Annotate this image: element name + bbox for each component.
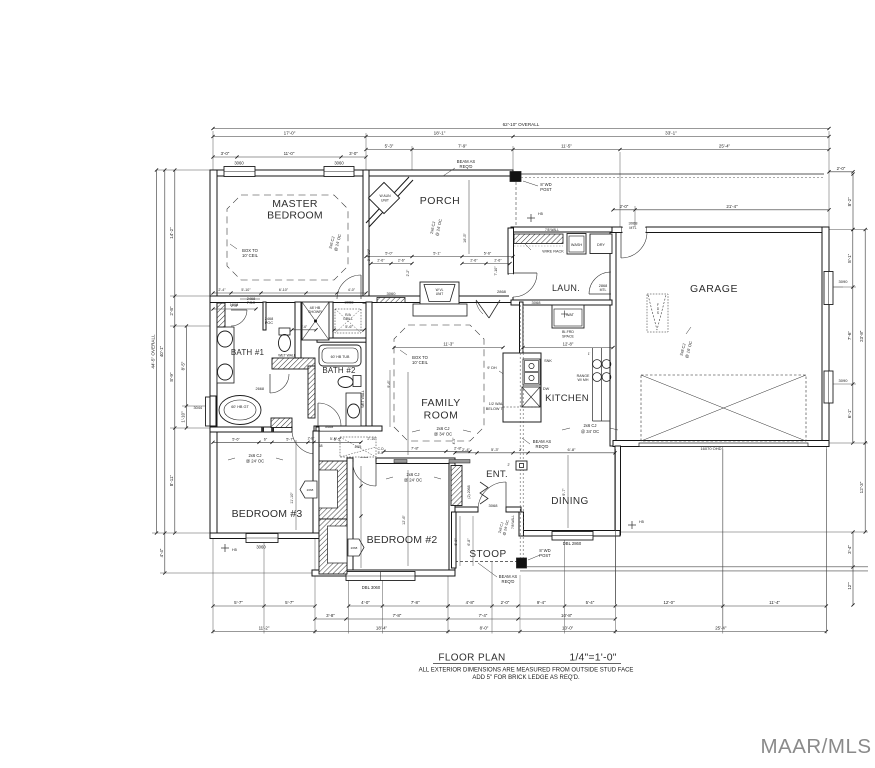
- walkway line front 2: [520, 570, 868, 572]
- svg-text:BATH #2: BATH #2: [322, 366, 356, 375]
- dim right top 8-2: [852, 174, 854, 230]
- svg-text:ENT.: ENT.: [486, 469, 508, 480]
- post at porch top right: [510, 172, 521, 182]
- svg-text:3'-8": 3'-8": [326, 613, 335, 618]
- svg-text:3'-0": 3'-0": [221, 151, 230, 156]
- dim master bottom row: [213, 292, 366, 294]
- wall laundry left upper: [508, 228, 514, 274]
- wall toilet/shower divider bath1: [295, 302, 301, 358]
- svg-text:3060: 3060: [334, 161, 344, 166]
- door 3068 mtl garage top: [620, 232, 622, 258]
- svg-text:3068: 3068: [345, 300, 355, 305]
- svg-text:2x6 CJ: 2x6 CJ: [583, 423, 596, 428]
- svg-text:5'-5": 5'-5": [334, 438, 342, 442]
- svg-text:5'-3": 5'-3": [491, 447, 500, 452]
- kitchen range counter: [592, 348, 594, 421]
- svg-text:ALL EXTERIOR DIMENSIONS ARE ME: ALL EXTERIOR DIMENSIONS ARE MEASURED FRO…: [419, 668, 634, 674]
- svg-text:3044: 3044: [194, 406, 202, 410]
- svg-text:6'-10": 6'-10": [279, 288, 289, 292]
- wall bedroom2 left: [347, 458, 353, 576]
- ext left y296: [170, 295, 211, 297]
- porch bottom interior dims: [366, 256, 513, 258]
- svg-text:7'-4": 7'-4": [479, 613, 488, 618]
- svg-text:WIRE RACK: WIRE RACK: [542, 250, 564, 254]
- dim top right 2-0: [829, 171, 853, 173]
- svg-text:2'-0": 2'-0": [620, 204, 629, 209]
- wall top master+porch: [211, 170, 513, 176]
- ext line family room left: [407, 372, 409, 455]
- closet bedroom3 hatched: [319, 461, 347, 519]
- post stoop black: [517, 558, 527, 568]
- svg-text:11'-0": 11'-0": [284, 151, 295, 156]
- stoop left wall: [452, 512, 457, 568]
- svg-text:11'-5": 11'-5": [561, 144, 572, 149]
- dim bottom row1 right: [448, 605, 826, 607]
- svg-text:2'-8": 2'-8": [308, 436, 316, 440]
- svg-text:23'-8": 23'-8": [859, 330, 864, 342]
- svg-text:GARAGE: GARAGE: [690, 283, 738, 295]
- door 3468 hall to bath2: [317, 403, 319, 426]
- stoop/dining divider wall: [519, 512, 524, 536]
- door 2668 bath1: [269, 374, 271, 393]
- svg-text:5'-6": 5'-6": [345, 325, 353, 329]
- svg-text:4'-8": 4'-8": [466, 600, 475, 605]
- wall corridor left / shower right: [328, 302, 333, 339]
- svg-text:3'-0": 3'-0": [349, 151, 358, 156]
- svg-text:BATH #1: BATH #1: [231, 348, 265, 357]
- door 3068 laundry left: [513, 272, 537, 274]
- svg-text:8'-5": 8'-5": [180, 361, 185, 370]
- attic access dashed: [340, 437, 376, 457]
- svg-text:2'-6": 2'-6": [470, 259, 478, 263]
- svg-text:11'-10": 11'-10": [290, 492, 294, 504]
- svg-text:@ 34' OC: @ 34' OC: [581, 429, 599, 434]
- porch diagonal outer: [366, 177, 409, 223]
- svg-text:KITCHEN: KITCHEN: [545, 393, 589, 404]
- svg-text:2': 2': [519, 447, 522, 452]
- svg-text:7'-6": 7'-6": [847, 331, 852, 341]
- svg-text:6'-8": 6'-8": [568, 447, 577, 452]
- svg-text:7'-10": 7'-10": [494, 266, 498, 276]
- door 1668 bath1 closet: [231, 309, 247, 311]
- dining top dim row: [455, 452, 615, 454]
- svg-text:9' DH: 9' DH: [487, 366, 497, 370]
- svg-text:DRY: DRY: [597, 243, 605, 247]
- bath1 garden tub: [219, 396, 261, 425]
- svg-text:4'-4": 4'-4": [159, 548, 164, 557]
- svg-text:12'-3": 12'-3": [859, 481, 864, 493]
- porch right dotted wall line: [515, 182, 517, 227]
- svg-text:2x6 CJ: 2x6 CJ: [436, 426, 449, 431]
- wall bedroom3 top left: [210, 427, 292, 432]
- dim garage top: [613, 209, 829, 211]
- window 3060 master left: [224, 167, 255, 177]
- svg-text:7'-8": 7'-8": [411, 446, 420, 451]
- ext left y428: [170, 427, 211, 429]
- front double door zigzag (2)2068: [480, 482, 488, 504]
- driveway lines: [615, 449, 617, 604]
- svg-text:UNIT: UNIT: [436, 292, 443, 296]
- svg-text:PORCH: PORCH: [420, 195, 460, 207]
- wall stub laundry-garage top: [610, 227, 622, 233]
- stoop dashed front: [455, 561, 520, 563]
- svg-text:44'-5" OVERALL: 44'-5" OVERALL: [151, 334, 156, 369]
- bath1 toilet: [279, 328, 290, 335]
- svg-text:1': 1': [588, 352, 591, 356]
- wall kitchen left stub: [520, 302, 524, 362]
- bath2 sink cabinet: [346, 393, 361, 426]
- ext line garage right top: [828, 131, 830, 227]
- H5 hose bib porch: [527, 217, 535, 219]
- wall bedroom3 top right stub: [316, 427, 319, 432]
- bath2 toilet: [353, 376, 361, 387]
- svg-text:5'-7": 5'-7": [234, 600, 243, 605]
- svg-text:17'-0": 17'-0": [284, 131, 296, 136]
- dim shower small: [292, 329, 316, 331]
- dim under RA grill: [334, 329, 364, 331]
- dim right bottom segs: [852, 532, 854, 605]
- ext right y287: [833, 286, 856, 288]
- svg-text:POST: POST: [539, 553, 551, 558]
- dim right garage segs: [852, 230, 854, 444]
- svg-text:3090: 3090: [839, 279, 849, 284]
- ext right y443: [829, 442, 868, 444]
- window 3090 garage right lower: [824, 371, 833, 403]
- svg-text:DINING: DINING: [551, 496, 588, 507]
- gap laundry-garage door: [611, 272, 616, 294]
- gap bedroom3 closet door: [314, 478, 319, 498]
- ext right y229: [829, 229, 868, 231]
- svg-text:2068: 2068: [351, 546, 358, 550]
- wall bedroom3 right: [313, 431, 319, 535]
- svg-text:H5: H5: [538, 212, 543, 216]
- svg-text:11'-3": 11'-3": [443, 342, 454, 347]
- svg-text:2x6 CJ: 2x6 CJ: [406, 472, 419, 477]
- svg-text:WASH: WASH: [571, 243, 583, 247]
- garage door header X box: [641, 375, 806, 441]
- svg-text:H5: H5: [639, 520, 644, 524]
- svg-text:3090: 3090: [839, 378, 849, 383]
- R/A grill dashed box: [335, 309, 361, 333]
- svg-text:#05: #05: [355, 444, 362, 449]
- dim master windows: [213, 156, 366, 158]
- gap bedroom2 closet door: [342, 540, 347, 556]
- walkway line front 1: [527, 566, 868, 568]
- svg-text:2x6 CJ: 2x6 CJ: [248, 453, 261, 458]
- fireplace hearth: [413, 304, 467, 316]
- door 2068 closet bedroom3 pentagon: [300, 481, 317, 498]
- svg-text:7/8 WALL: 7/8 WALL: [511, 515, 515, 529]
- svg-text:MTL: MTL: [600, 288, 607, 292]
- dim row2 top: [213, 136, 829, 138]
- svg-text:BEDROOM #2: BEDROOM #2: [367, 534, 438, 546]
- door 2068 bedroom3 entry: [315, 430, 317, 454]
- ext line garage door top: [619, 152, 621, 227]
- svg-text:7/8 WALL: 7/8 WALL: [545, 228, 559, 232]
- wall ent front left: [455, 507, 478, 512]
- svg-text:60' HB GT: 60' HB GT: [231, 405, 249, 409]
- svg-text:12'-8": 12'-8": [563, 342, 574, 347]
- svg-text:21'-4": 21'-4": [726, 204, 738, 209]
- dim overall height left: [156, 170, 158, 533]
- svg-text:POC: POC: [265, 321, 273, 325]
- ext left y406: [182, 405, 207, 407]
- window dbl2860 dining bottom: [552, 532, 593, 541]
- svg-text:(2) 2068: (2) 2068: [467, 485, 471, 498]
- beam dotted line kitchen-dining: [519, 305, 521, 558]
- gap pocket door master-bath: [240, 297, 260, 302]
- window 3060 bedroom3 bottom: [246, 534, 278, 543]
- svg-text:ADD 5" FOR BRICK LEDGE AS REQ': ADD 5" FOR BRICK LEDGE AS REQ'D.: [472, 675, 580, 681]
- svg-text:4'-5": 4'-5": [452, 437, 456, 445]
- ext left y170: [156, 169, 211, 171]
- svg-text:4'-0": 4'-0": [348, 288, 356, 292]
- svg-text:2'-4": 2'-4": [231, 304, 239, 308]
- kitchen sink unit: [523, 359, 540, 385]
- wet wall hatch bottom: [271, 418, 292, 428]
- fireplace box: [420, 282, 459, 304]
- svg-text:8'-2": 8'-2": [847, 197, 852, 207]
- window dbl3060 bedroom2 bottom: [346, 572, 415, 581]
- svg-text:4'-0": 4'-0": [361, 600, 370, 605]
- H5 dining right: [628, 524, 636, 526]
- svg-text:3068: 3068: [629, 221, 639, 226]
- svg-text:UNIT: UNIT: [381, 199, 389, 203]
- svg-text:MASTER: MASTER: [272, 198, 318, 210]
- svg-text:5'-3": 5'-3": [385, 144, 394, 149]
- gap bath2 hall door: [320, 427, 340, 431]
- wall left exterior: [210, 170, 217, 533]
- ext line garage 2ft: [634, 206, 636, 227]
- wall bedroom2 bottom: [312, 570, 455, 576]
- gap laundry left door: [509, 274, 514, 297]
- svg-text:8'-0": 8'-0": [480, 626, 489, 631]
- jamb tub door right: [272, 427, 274, 432]
- svg-text:FAMILY: FAMILY: [421, 397, 461, 409]
- svg-text:2668: 2668: [256, 387, 264, 391]
- svg-text:9'-6": 9'-6": [387, 380, 391, 388]
- post square at dining/ent corner: [516, 461, 527, 470]
- door 2868 laundry to garage: [589, 293, 611, 295]
- svg-text:3060: 3060: [256, 545, 266, 550]
- dim overall width top: [213, 128, 829, 130]
- dishwasher: [522, 387, 540, 407]
- svg-text:REQ'D: REQ'D: [536, 444, 549, 449]
- dim left col3: [174, 170, 176, 533]
- dim right 12-3: [864, 443, 866, 532]
- H5 bedroom3: [221, 547, 229, 549]
- wall ent front right: [506, 507, 521, 512]
- svg-text:POST: POST: [540, 187, 552, 192]
- bath1 vanity: [217, 327, 234, 383]
- svg-text:8'-5 1/2": 8'-5 1/2": [367, 248, 371, 261]
- svg-text:10'-8": 10'-8": [561, 613, 573, 618]
- closet bedroom2 hatched: [319, 519, 347, 574]
- porch diagonal inner: [369, 180, 413, 227]
- ext right y532 dining bottom: [620, 531, 868, 533]
- svg-text:9'-7": 9'-7": [562, 488, 566, 496]
- jamb tub door left: [262, 427, 264, 432]
- svg-text:2'-0": 2'-0": [837, 166, 846, 171]
- pocket door thin line: [240, 298, 260, 300]
- svg-text:BEDROOM #3: BEDROOM #3: [232, 508, 303, 520]
- dim left col2: [164, 170, 166, 573]
- svg-text:S: S: [657, 311, 659, 315]
- wall garage bottom: [613, 441, 829, 447]
- svg-text:7'-8": 7'-8": [393, 613, 402, 618]
- dim bottom row3: [213, 631, 826, 633]
- ext line porch 5-3: [411, 146, 413, 176]
- door 3068 front entry: [505, 482, 507, 510]
- wall garage right: [822, 227, 829, 446]
- ext left y326: [170, 325, 211, 327]
- svg-text:2'-6": 2'-6": [494, 259, 502, 263]
- svg-text:REQ'D: REQ'D: [460, 164, 473, 169]
- svg-text:25'-4": 25'-4": [715, 626, 727, 631]
- window 3060 master right: [324, 167, 354, 177]
- svg-text:8'-9": 8'-9": [169, 372, 174, 382]
- svg-text:11'-4": 11'-4": [769, 600, 780, 605]
- svg-text:40'-1": 40'-1": [159, 345, 164, 357]
- wall bath2 bottom / hall top: [314, 426, 382, 431]
- svg-text:MAAR/MLS: MAAR/MLS: [760, 735, 871, 758]
- closet1 interior: [319, 470, 338, 508]
- svg-text:@ 34' OC: @ 34' OC: [434, 432, 452, 437]
- dim small bath1 top: [213, 308, 256, 310]
- ext line master/porch: [365, 133, 367, 170]
- svg-text:2'-4": 2'-4": [218, 288, 226, 292]
- kitchen island: [503, 353, 541, 422]
- window 3090 garage right upper: [824, 272, 833, 305]
- bedroom2 vertical dim: [295, 440, 297, 530]
- ext stoop post down: [519, 575, 521, 634]
- dim right garage overall: [864, 230, 866, 444]
- door 3068 master bedroom: [360, 275, 362, 299]
- svg-text:7'-8": 7'-8": [411, 600, 420, 605]
- svg-text:ROOM: ROOM: [424, 410, 459, 422]
- wire rack dotted line: [514, 245, 563, 247]
- wall dining bottom: [519, 531, 620, 537]
- svg-text:DBL 3060: DBL 3060: [362, 585, 381, 590]
- svg-text:1/4"=1'-0": 1/4"=1'-0": [569, 652, 616, 664]
- ext right y384: [833, 383, 856, 385]
- svg-text:60' HB TUB: 60' HB TUB: [331, 355, 350, 359]
- svg-text:14'-2": 14'-2": [169, 227, 174, 239]
- wall master+porch bottom: [210, 296, 513, 303]
- svg-text:2': 2': [507, 463, 510, 467]
- svg-text:2'-2": 2'-2": [406, 269, 410, 277]
- bath1 tub room walls: [210, 396, 216, 426]
- wall laundry/kitchen divider: [511, 300, 612, 305]
- wall family room left / bath2 right: [366, 302, 372, 430]
- wall laundry top: [511, 227, 612, 232]
- porch low window hatched: [377, 298, 405, 303]
- gap front door: [479, 508, 505, 511]
- svg-text:2'-8": 2'-8": [454, 446, 463, 451]
- svg-text:10' CEIL: 10' CEIL: [242, 253, 259, 258]
- wall garage left: [610, 228, 616, 446]
- svg-text:5'-4": 5'-4": [586, 600, 595, 605]
- ext left y573: [160, 572, 312, 574]
- svg-text:16'-5": 16'-5": [463, 233, 467, 243]
- svg-text:6'-1": 6'-1": [847, 409, 852, 419]
- svg-text:W/ MH: W/ MH: [578, 378, 589, 382]
- attic stairs dotted: [647, 294, 668, 332]
- wall bedroom2 right: [449, 463, 455, 576]
- svg-text:BI-FRD: BI-FRD: [562, 330, 574, 334]
- dim bedroom3 top row: [213, 441, 361, 443]
- dim bottom row1 bedroom3: [213, 605, 315, 607]
- svg-text:8'-11": 8'-11": [169, 474, 174, 486]
- gap garage top door: [622, 228, 646, 232]
- wet wall hatch vertical: [308, 366, 315, 418]
- dim bottom row2: [315, 618, 615, 620]
- dim vline right of closets: [360, 466, 362, 568]
- wet wall hatch horizontal: [272, 358, 315, 369]
- svg-text:2'-0": 2'-0": [501, 600, 510, 605]
- gap porch 2868 door: [477, 297, 499, 302]
- gap tub room door: [264, 428, 272, 431]
- dining vertical dim: [567, 455, 569, 528]
- svg-text:5'-0": 5'-0": [385, 252, 393, 256]
- svg-text:SPACE: SPACE: [562, 335, 575, 339]
- svg-text:9'-4": 9'-4": [537, 600, 546, 605]
- svg-text:3060: 3060: [234, 161, 244, 166]
- svg-text:5'-6": 5'-6": [484, 252, 492, 256]
- svg-text:6'-0": 6'-0": [454, 538, 458, 546]
- dim left col4: [185, 326, 187, 428]
- svg-text:@ 24' OC: @ 24' OC: [246, 459, 264, 464]
- svg-text:5'-7": 5'-7": [286, 438, 294, 442]
- svg-text:WET WALL: WET WALL: [361, 390, 365, 408]
- svg-text:3068: 3068: [489, 503, 499, 508]
- svg-text:18'-1": 18'-1": [434, 131, 446, 136]
- gap master door: [338, 297, 361, 302]
- dim kitchen top 12-8: [523, 347, 613, 349]
- garage door opening: [639, 443, 808, 447]
- svg-text:LAUN.: LAUN.: [552, 283, 580, 293]
- svg-text:3'-4": 3'-4": [847, 545, 852, 554]
- wall bath2 top / tub back: [317, 338, 366, 342]
- svg-text:GRILL: GRILL: [343, 317, 353, 321]
- svg-text:H5: H5: [232, 548, 237, 552]
- bath1 closet hatched wall: [217, 303, 225, 327]
- svg-text:12'-0": 12'-0": [663, 600, 675, 605]
- door 3068 bedroom2 entry: [375, 462, 377, 486]
- svg-text:6'-8": 6'-8": [467, 538, 471, 546]
- svg-text:8'-1": 8'-1": [847, 253, 852, 263]
- svg-text:WET WALL: WET WALL: [278, 354, 296, 358]
- svg-text:@ 24' OC: @ 24' OC: [404, 478, 422, 483]
- svg-text:2868: 2868: [497, 289, 507, 294]
- svg-text:10' CEIL: 10' CEIL: [412, 360, 429, 365]
- svg-text:2'-10": 2'-10": [367, 437, 377, 441]
- wall bedroom2 top: [376, 458, 455, 464]
- svg-text:12'": 12'": [847, 582, 852, 590]
- svg-text:7'-9": 7'-9": [458, 144, 467, 149]
- svg-text:25'-4": 25'-4": [719, 144, 731, 149]
- svg-text:SNK: SNK: [544, 359, 552, 363]
- svg-text:1'-6": 1'-6": [301, 325, 307, 329]
- svg-text:12'-6": 12'-6": [402, 515, 406, 525]
- dim family top 11-3: [394, 347, 503, 349]
- washer: [567, 234, 586, 255]
- wall bedroom3 bottom: [210, 533, 319, 539]
- svg-text:3468: 3468: [325, 425, 333, 429]
- eave line from post to garage right: [521, 173, 824, 175]
- svg-text:3068: 3068: [532, 300, 542, 305]
- ext left y533: [152, 532, 211, 534]
